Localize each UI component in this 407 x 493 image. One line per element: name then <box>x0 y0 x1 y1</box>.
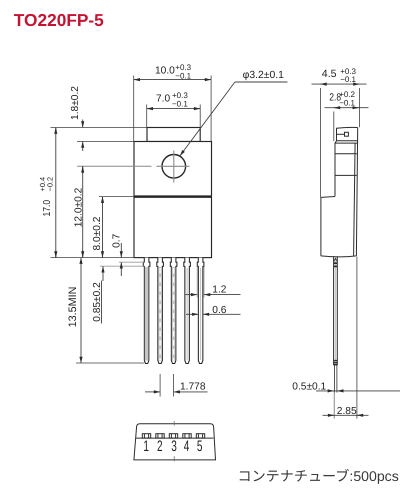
side ledge slant <box>335 141 337 143</box>
text 17.0 (rotated) <box>38 177 54 217</box>
svg-text:0.6: 0.6 <box>212 305 226 316</box>
side hole top line <box>335 153 357 155</box>
front step thick line <box>134 195 212 198</box>
side tab box top arc <box>337 127 358 140</box>
side lead crimp band lower 2 <box>333 362 337 364</box>
dim 7.0 extension right <box>199 105 201 128</box>
dim 0.6 arrows <box>186 313 198 315</box>
side tab hole notch <box>345 132 349 136</box>
lead pin 3 (front view) <box>170 258 177 364</box>
dim 0.7 arrow bottom <box>120 262 122 276</box>
bottom pin 5 section <box>196 434 204 438</box>
bottom pin 4 section <box>183 434 191 438</box>
dim 1.8 arrow bottom <box>82 142 84 152</box>
side lead crimp band upper 2 <box>333 265 337 267</box>
dim 10.0 extension right <box>210 76 212 142</box>
dim 8.0 line <box>102 197 104 258</box>
hole crosshair horizontal <box>157 165 190 167</box>
svg-text:5: 5 <box>197 438 203 455</box>
svg-text:コンテナチューブ:500pcs: コンテナチューブ:500pcs <box>238 468 399 484</box>
svg-text:φ3.2±0.1: φ3.2±0.1 <box>243 70 285 81</box>
dim 2.8 extension left <box>333 112 335 142</box>
svg-text:2: 2 <box>157 438 163 455</box>
bottom pin 1 section <box>142 434 150 438</box>
extension line lead neck bottom <box>119 261 144 263</box>
side lead left edge <box>333 256 335 365</box>
svg-text:−0.1: −0.1 <box>340 75 356 84</box>
extension line lead bump bottom <box>100 265 144 267</box>
hole crosshair vertical <box>173 151 175 183</box>
front tab outline <box>147 128 200 142</box>
lead pin 4 centerline faint <box>186 268 188 360</box>
extension line tab top left <box>51 127 148 129</box>
lead pin 1 shank shading <box>145 267 149 361</box>
svg-text:7.0: 7.0 <box>156 94 170 105</box>
side lead crimp band upper 1 <box>333 262 337 264</box>
bottom centerline tick top <box>173 421 175 425</box>
dim 0.85 arrow <box>102 266 104 281</box>
dim 4.5 line <box>312 83 367 85</box>
svg-text:1: 1 <box>143 438 149 455</box>
svg-text:−0.1: −0.1 <box>172 99 188 108</box>
dim 4.5 extension right <box>359 88 361 127</box>
side hole bottom line <box>335 174 357 176</box>
side tab notch line <box>337 133 345 135</box>
svg-text:4: 4 <box>184 438 190 455</box>
svg-text:2.85: 2.85 <box>337 406 357 417</box>
dim 0.5 arrows <box>328 390 334 392</box>
svg-text:0.5±0.1: 0.5±0.1 <box>292 381 326 392</box>
side inner back line <box>354 143 356 256</box>
lead pin 3 shank shading <box>172 267 176 361</box>
extension line step left <box>99 196 134 198</box>
svg-text:3: 3 <box>171 438 177 455</box>
side lead crimp band lower 1 <box>333 360 337 362</box>
mounting hole circle <box>162 155 186 179</box>
bottom pin 3 section <box>169 434 177 438</box>
front body outline <box>134 142 212 258</box>
lead pin 2 shank shading <box>158 267 162 361</box>
dim 1.2 extension lines <box>196 267 198 298</box>
extension line hole center left <box>77 165 152 167</box>
dim 2.85 arrows <box>328 414 334 416</box>
svg-text:13.5MIN: 13.5MIN <box>67 287 79 328</box>
side lead narrow right <box>336 365 338 393</box>
lead pin 1 (front view) <box>143 258 150 364</box>
dim 1.8 arrow top <box>82 120 84 128</box>
svg-text:4.5: 4.5 <box>322 68 337 80</box>
side lead right edge <box>336 256 338 365</box>
dim 10.0 line <box>134 79 211 81</box>
side lower front face <box>320 197 322 256</box>
dim 13.5 line <box>80 258 82 363</box>
dim 7.0 line <box>147 108 201 110</box>
dim phi3.2 leader underline <box>235 81 288 83</box>
svg-text:10.0: 10.0 <box>155 66 175 77</box>
lead pin 5 centerline faint <box>200 268 202 360</box>
dim 2.85 line <box>323 414 369 416</box>
side ledge line <box>335 142 358 144</box>
dim 2.8 line <box>325 107 369 109</box>
svg-text:−0.1: −0.1 <box>339 98 355 107</box>
svg-text:0.7: 0.7 <box>112 233 123 247</box>
lead pin 2 centerline dash <box>159 268 161 360</box>
extension line lead tip left <box>76 362 144 364</box>
lead pin 2 (front view) <box>157 258 164 364</box>
svg-text:12.0±0.2: 12.0±0.2 <box>73 187 84 227</box>
dim 12.0 line <box>82 166 84 257</box>
side lead tip extension <box>333 393 335 419</box>
dim 17.0 line <box>55 128 57 258</box>
svg-text:1.2: 1.2 <box>212 285 226 296</box>
dim 1.778 arrows <box>145 391 160 393</box>
svg-text:TO220FP-5: TO220FP-5 <box>14 10 104 30</box>
dim 10.0 extension left <box>133 76 135 142</box>
side lead flare <box>334 258 337 261</box>
svg-text:−0.1: −0.1 <box>175 71 191 80</box>
side upper front face <box>334 143 336 196</box>
dim 0.85 underline <box>101 281 103 324</box>
dim phi3.2 leader arrow <box>180 82 235 156</box>
extension line body bottom left <box>51 257 135 259</box>
svg-text:1.778: 1.778 <box>180 382 206 393</box>
dim 4.5 extension left <box>320 88 322 198</box>
bottom centerline tick bottom <box>173 456 175 461</box>
side back face <box>356 128 357 256</box>
side bottom edge <box>321 256 356 257</box>
dim 0.5 line <box>316 390 400 392</box>
lead pin 5 (front view) <box>197 258 204 364</box>
extension line body top left <box>77 141 134 143</box>
side tab bottom line <box>337 140 358 142</box>
svg-text:17.0: 17.0 <box>42 200 53 217</box>
svg-text:−0.2: −0.2 <box>45 177 54 192</box>
bottom pin 2 section <box>156 434 164 438</box>
dim 7.0 extension left <box>146 105 148 128</box>
side lead center shading <box>334 257 336 360</box>
dim 1.778 extension lines <box>159 374 161 397</box>
side lead narrow left <box>334 365 336 393</box>
dim 0.7 arrow top <box>120 243 122 258</box>
dim 1.2 arrows <box>186 294 198 296</box>
lead pin 3 centerline dash <box>173 268 175 360</box>
side step <box>321 196 335 199</box>
svg-text:8.0±0.2: 8.0±0.2 <box>92 216 103 250</box>
side lead crimp band lower 3 <box>333 364 337 366</box>
bottom view outline <box>134 424 216 460</box>
svg-text:0.85±0.2: 0.85±0.2 <box>92 282 103 322</box>
FRONT VIEW <box>134 128 212 258</box>
dim 2.85 extension right <box>356 257 358 419</box>
svg-text:1.8±0.2: 1.8±0.2 <box>70 86 81 120</box>
bottom view seating line <box>136 437 214 439</box>
lead pin 4 (front view) <box>184 258 191 364</box>
